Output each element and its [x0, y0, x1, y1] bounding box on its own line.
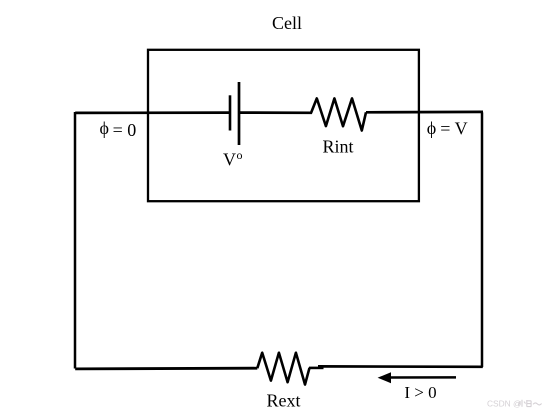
svg-text:I > 0: I > 0 — [404, 383, 436, 402]
svg-text:ϕ: ϕ — [100, 118, 109, 138]
wire bottom-left segment — [75, 367, 257, 370]
wire top-left segment — [75, 111, 230, 114]
svg-text:CSDN @: CSDN @ — [487, 398, 522, 408]
current arrow I>0 head — [378, 372, 391, 383]
wire left edge — [74, 112, 77, 369]
current arrow I>0 shaft — [390, 376, 456, 379]
resistor Rext zigzag — [257, 353, 309, 385]
wire right edge — [481, 112, 484, 367]
node phi=V label — [427, 118, 468, 139]
svg-text:Rint: Rint — [322, 137, 353, 157]
svg-text:o: o — [237, 148, 243, 162]
svg-text:= V: = V — [440, 118, 467, 138]
svg-text:ϕ: ϕ — [427, 118, 436, 138]
svg-text:Rext: Rext — [267, 390, 301, 410]
watermark CJK glyph — [519, 400, 542, 407]
battery V0 negative plate — [229, 95, 232, 130]
resistor Rint zigzag — [311, 98, 366, 130]
wire Rext right lead — [309, 367, 324, 370]
cell enclosure box — [148, 50, 419, 201]
wire battery to Rint — [239, 111, 312, 114]
wire Rint to right edge — [366, 111, 483, 114]
battery V0 positive plate — [238, 82, 241, 145]
svg-text:V: V — [223, 150, 236, 170]
svg-text:Cell: Cell — [272, 13, 302, 33]
svg-text:= 0: = 0 — [113, 120, 137, 140]
node phi=0 label — [100, 118, 137, 140]
wire bottom-right segment — [318, 365, 483, 368]
